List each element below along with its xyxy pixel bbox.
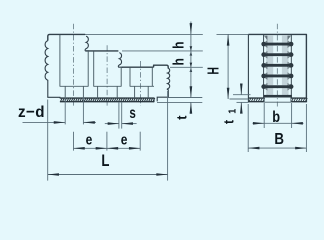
jaw step3 top edge (122, 66, 154, 68)
svg-text:b: b (272, 109, 280, 127)
extension line step3 top (170, 66, 203, 68)
z-d extension lines (64, 97, 66, 125)
extension line jaw serration bottom (t) (157, 101, 202, 103)
b extension lines (263, 103, 265, 128)
svg-text:B: B (274, 131, 284, 148)
centerline hole 2 (106, 45, 108, 105)
t1 dimension arrows (240, 88, 242, 94)
right view: jaw end view block (248, 34, 306, 102)
svg-text:z−d: z−d (18, 104, 45, 121)
svg-text:1: 1 (227, 108, 239, 114)
jaw step face 1 (serrated wavy) (85, 36, 89, 51)
H bottom extension line (230, 98, 249, 100)
serrated column inner edges (266, 36, 268, 98)
jaw step face 2 (serrated wavy) (118, 53, 123, 68)
H dimension line (227, 34, 229, 66)
centerline hole 3 (140, 61, 142, 106)
block left edge (247, 34, 249, 102)
b dimension arrows (253, 122, 265, 124)
s slot extension lines (118, 102, 120, 129)
extension line jaw serration top (t) (169, 97, 203, 99)
s dimension arrows (105, 123, 119, 125)
hole 2 thread (97, 86, 99, 98)
svg-text:h: h (170, 42, 187, 49)
B extension lines (247, 104, 249, 152)
hole 3 counterbore (129, 68, 131, 87)
dimension chain h/h/t vertical line (190, 22, 192, 35)
z-d leader arrows (23, 121, 66, 123)
bottom serration strip (left view) (60, 97, 154, 99)
svg-text:L: L (101, 152, 109, 171)
svg-text:e: e (121, 131, 128, 148)
jaw right gripping face (serrated wavy) (157, 68, 170, 102)
extension line step2 top (122, 50, 203, 52)
e row extension lines (hole centers) (73, 132, 75, 151)
column foot lines to block bottom (263, 98, 265, 103)
svg-text:t: t (221, 119, 237, 124)
t1 extension lines (233, 94, 251, 96)
dimension t arrows (190, 88, 192, 98)
serrated column outer edges (263, 35, 265, 98)
jaw right end lip (154, 65, 169, 68)
L extension lines (47, 100, 49, 181)
right view centerline (276, 24, 278, 107)
serration ribs (261, 35, 293, 97)
jaw bottom left face (47, 96, 60, 99)
jaw left gripping face (serrated wavy) (45, 41, 48, 98)
L dimension line (48, 174, 107, 176)
centerline hole 1 (73, 24, 75, 106)
hole 3 thread (134, 86, 136, 98)
svg-text:t: t (174, 115, 190, 120)
hole 1 thread (64, 86, 66, 98)
svg-text:H: H (205, 67, 223, 75)
extension line step1 top (85, 33, 203, 35)
strip right end wall (153, 98, 155, 103)
B dimension arrows (248, 147, 277, 149)
hole 2 counterbore (93, 51, 95, 86)
svg-text:e: e (86, 131, 93, 148)
svg-text:h: h (170, 58, 187, 65)
jaw step1 top edge (48, 34, 85, 40)
e dimension arrows (74, 147, 91, 149)
svg-text:s: s (129, 105, 136, 122)
H top extension line (217, 33, 249, 35)
hole 1 counterbore (59, 35, 61, 87)
right view bottom serration strip (interrupted behind column) (248, 97, 264, 99)
jaw step2 top edge (86, 50, 118, 52)
